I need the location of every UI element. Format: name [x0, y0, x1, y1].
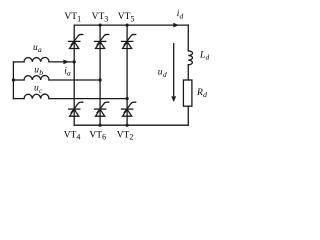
svg-text:ia: ia	[64, 67, 71, 78]
thyristor VT3	[95, 34, 109, 48]
svg-text:id: id	[177, 9, 184, 21]
wire phase a left	[13, 61, 24, 63]
svg-text:VT3: VT3	[92, 12, 109, 23]
node bus phase b	[12, 78, 15, 81]
svg-text:ud: ud	[158, 68, 167, 80]
svg-text:uc: uc	[34, 84, 43, 95]
thyristor VT6	[95, 102, 109, 116]
svg-text:Ld: Ld	[199, 51, 209, 62]
thyristor VT2	[122, 102, 136, 116]
node top rail leg3	[99, 24, 102, 27]
inductor ub winding	[24, 75, 49, 80]
svg-text:ub: ub	[34, 66, 43, 77]
wire coil to resistor	[187, 65, 189, 80]
node phase a leg1	[73, 60, 76, 63]
inductor uc winding	[24, 94, 49, 99]
wire phase b right	[49, 79, 100, 81]
arrow ud	[173, 44, 175, 96]
svg-text:Rd: Rd	[196, 88, 207, 99]
svg-text:VT6: VT6	[89, 130, 106, 141]
svg-text:VT4: VT4	[64, 130, 81, 141]
wire top rail	[74, 24, 188, 26]
node bottom rail leg5	[126, 124, 129, 127]
wire bottom rail	[74, 124, 188, 126]
wire phase c right	[49, 98, 127, 100]
inductor Ld coil	[188, 51, 192, 65]
svg-text:ua: ua	[33, 43, 42, 54]
thyristor VT1	[69, 34, 83, 48]
wire phase b left	[13, 79, 24, 81]
wire resistor to bottom	[187, 106, 189, 125]
svg-text:VT1: VT1	[64, 12, 81, 23]
wire left bus	[12, 62, 14, 99]
wire leg 3	[99, 25, 101, 125]
thyristor VT5	[122, 34, 136, 48]
inductor ua winding	[24, 57, 49, 62]
thyristor VT4	[69, 102, 83, 116]
node top rail leg5	[126, 24, 129, 27]
resistor Rd	[183, 80, 192, 106]
wire leg 1	[73, 25, 75, 125]
wire phase a right	[49, 61, 74, 63]
svg-text:VT5: VT5	[118, 12, 135, 23]
wire leg 5	[126, 25, 128, 125]
arrow id head	[173, 23, 179, 28]
node phase c leg5	[126, 97, 129, 100]
node phase b leg3	[99, 78, 102, 81]
arrow ud head	[171, 96, 176, 102]
wire right branch upper	[187, 25, 189, 51]
node bottom rail leg3	[99, 124, 102, 127]
svg-text:VT2: VT2	[117, 130, 134, 141]
wire phase c left	[13, 98, 24, 100]
arrow ia head	[63, 60, 69, 65]
